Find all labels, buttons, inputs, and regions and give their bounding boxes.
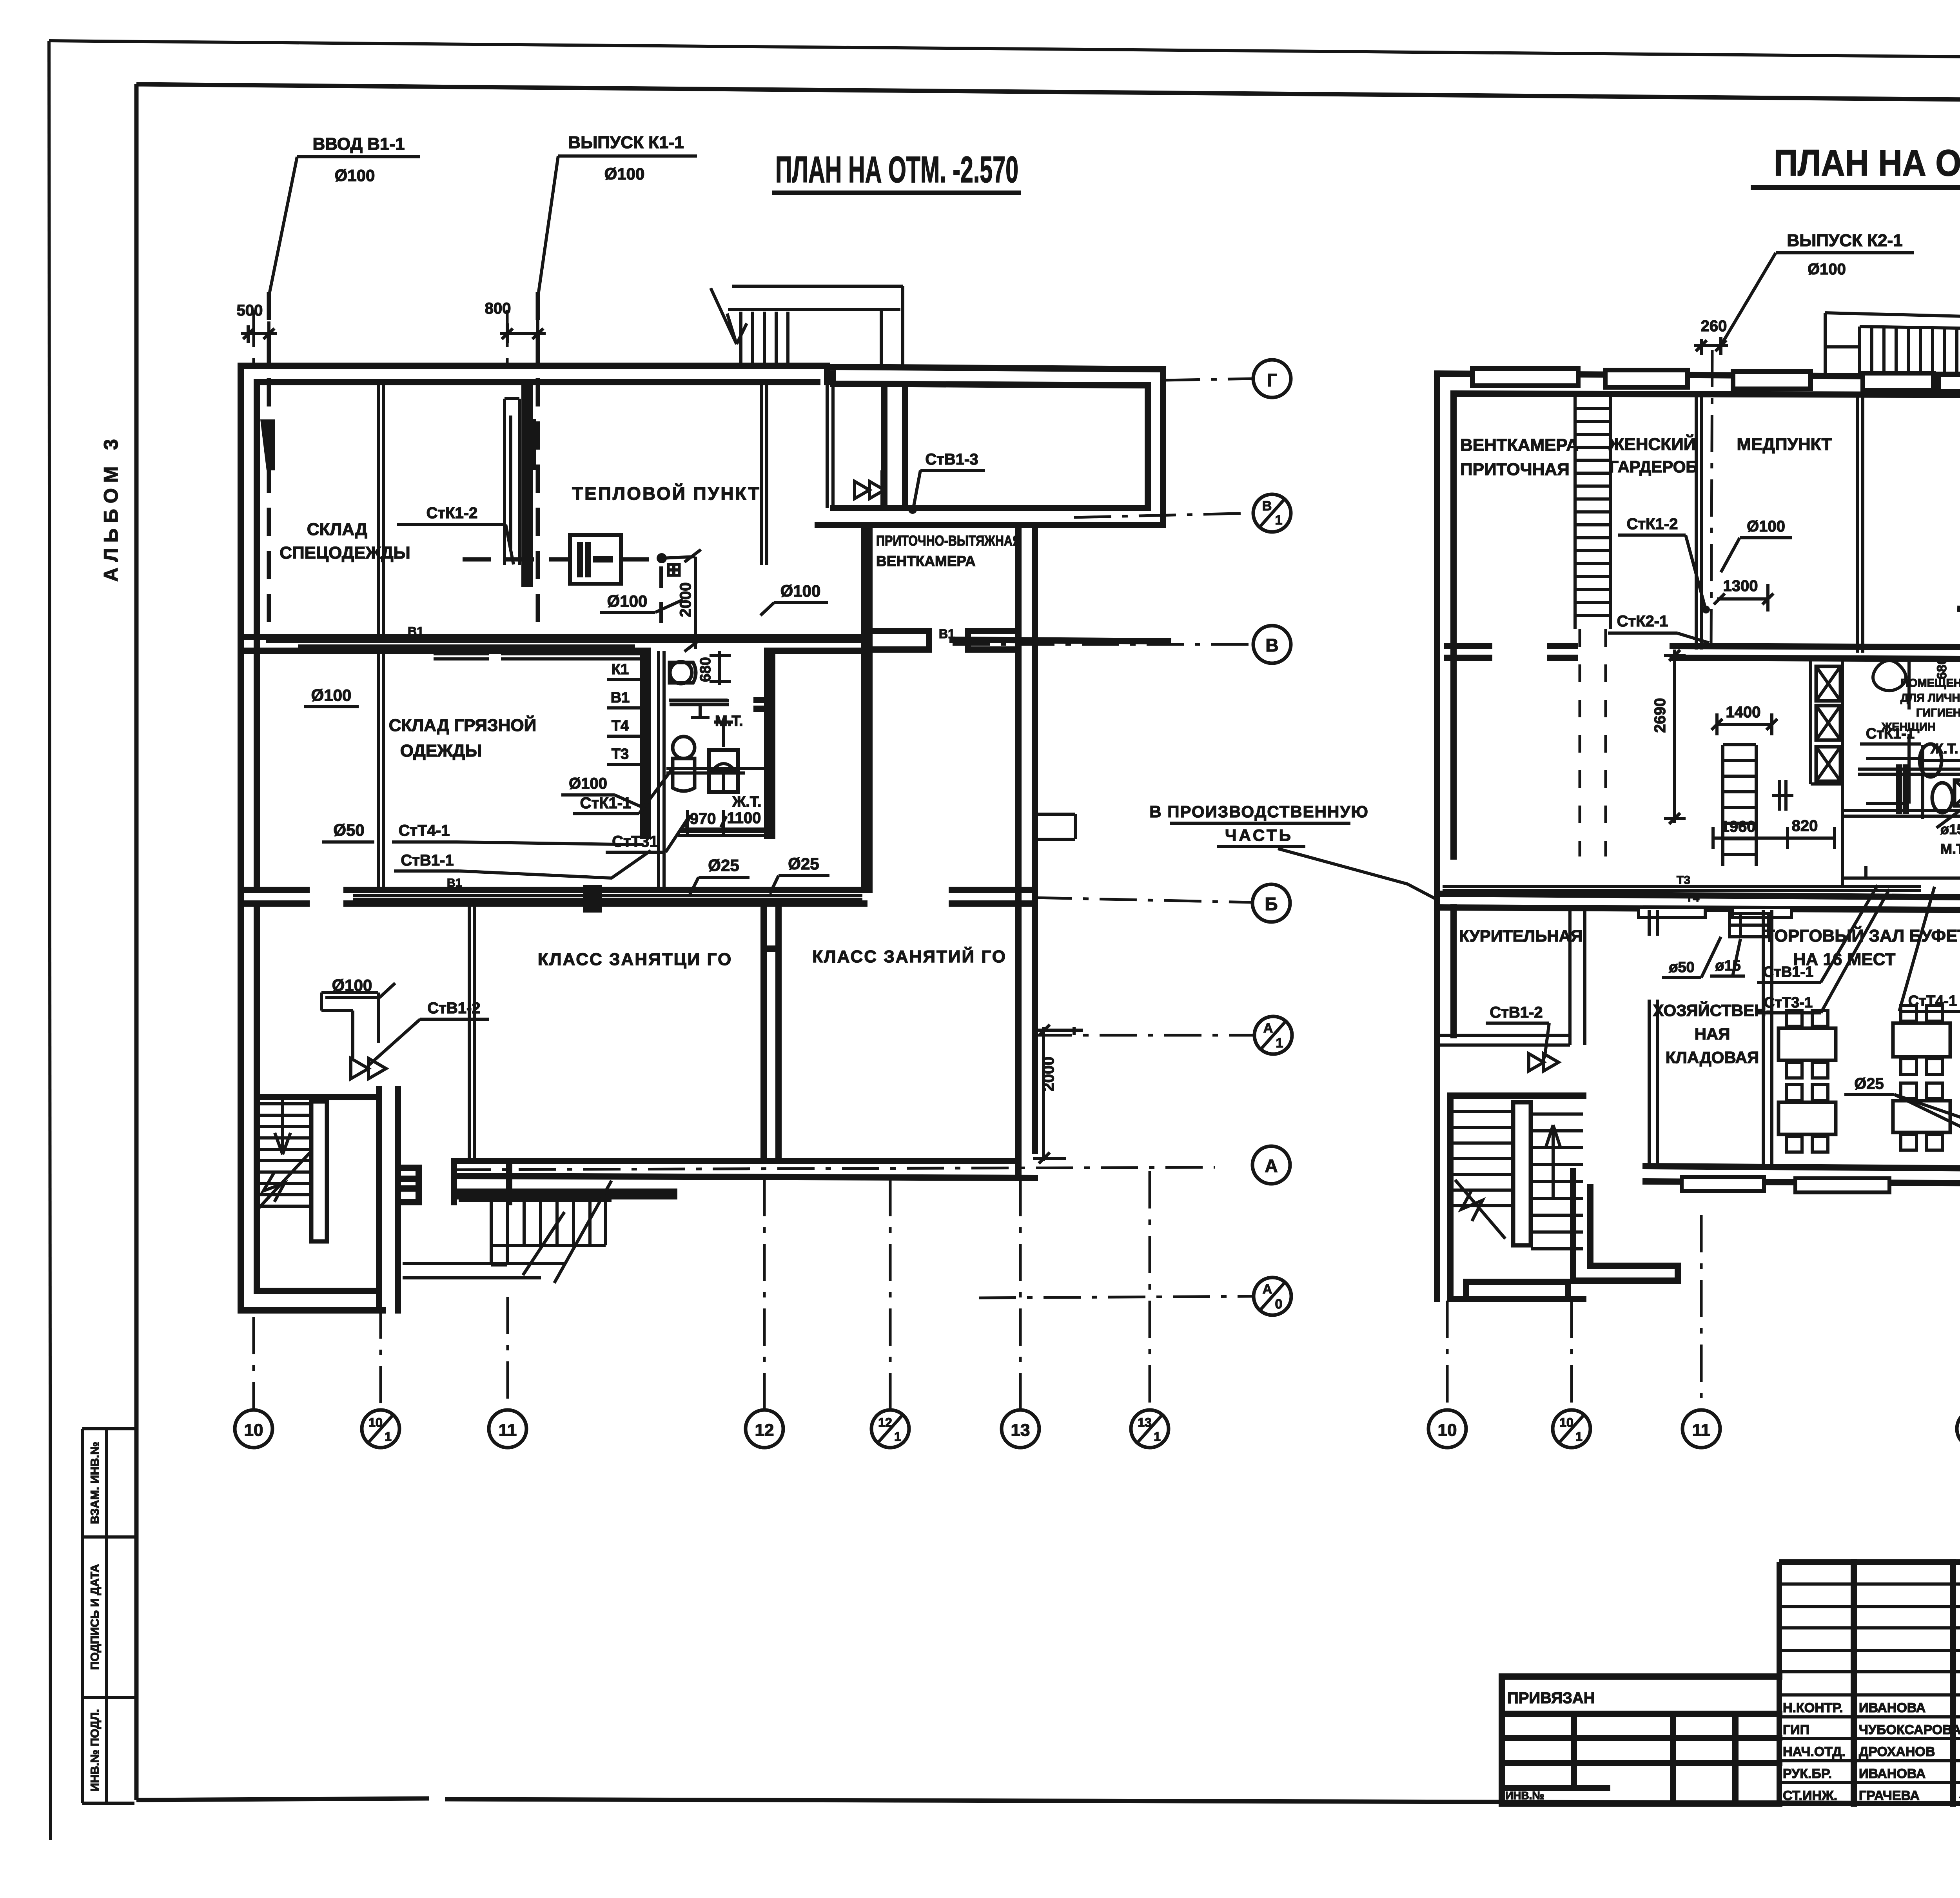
valve StV1-2 (351, 1058, 386, 1079)
K2 riser dash (1711, 350, 1712, 649)
svg-text:970: 970 (690, 810, 716, 827)
hoz kladovaya walls (1649, 910, 1772, 1166)
column circle 10/1 (362, 1410, 399, 1448)
svg-text:Ж.Т.: Ж.Т. (732, 794, 761, 810)
svg-text:СтВ1-2: СтВ1-2 (427, 1000, 480, 1017)
svg-text:Т3: Т3 (1677, 874, 1690, 887)
svg-text:Ø100: Ø100 (607, 592, 648, 610)
riser arrow black left (260, 419, 275, 470)
corridor left wall (827, 385, 833, 508)
south rooms top walls under V (434, 654, 641, 659)
column circle 13 (1002, 1410, 1039, 1448)
A bottom wall band (454, 1161, 1035, 1178)
V level stubs in pritochno (869, 631, 1018, 650)
svg-text:ГРАЧЕВА: ГРАЧЕВА (1859, 1788, 1920, 1803)
svg-text:Ø25: Ø25 (708, 856, 739, 875)
svg-text:1300: 1300 (1723, 577, 1758, 595)
left wall lower right plan (1437, 856, 1454, 1299)
svg-text:К1: К1 (612, 661, 629, 678)
svg-text:В1: В1 (611, 690, 630, 706)
partition 10/1 (378, 382, 383, 637)
svg-text:ЧАСТЬ: ЧАСТЬ (1225, 826, 1293, 844)
valve right plan (1529, 1054, 1559, 1071)
svg-text:НАЯ: НАЯ (1695, 1025, 1730, 1043)
heat unit box (570, 535, 621, 584)
svg-text:СПЕЦОДЕЖДЫ: СПЕЦОДЕЖДЫ (279, 543, 410, 563)
leader v proizvodstvennuyu (1278, 849, 1437, 900)
svg-text:В1: В1 (447, 876, 462, 889)
sanitary room bottom wall (678, 831, 768, 836)
svg-text:ДЛЯ ЛИЧНОЙ: ДЛЯ ЛИЧНОЙ (1900, 691, 1960, 704)
axis V1 circle (1074, 513, 1253, 517)
axis 10 extension above (252, 310, 255, 367)
svg-text:МЕДПУНКТ: МЕДПУНКТ (1737, 435, 1832, 454)
svg-text:НА 16 МЕСТ: НА 16 МЕСТ (1793, 950, 1896, 969)
pipe risers mid (1772, 780, 1793, 811)
svg-text:СтВ1-2: СтВ1-2 (1490, 1004, 1543, 1021)
riser dash with box symbol (659, 566, 663, 635)
svg-text:АЛЬБОМ 3: АЛЬБОМ 3 (100, 434, 122, 582)
top wall band G (241, 366, 827, 382)
tap fixture (1730, 913, 1769, 937)
svg-text:1: 1 (1154, 1430, 1161, 1444)
svg-text:ПРИТОЧНО-ВЫТЯЖНАЯ: ПРИТОЧНО-ВЫТЯЖНАЯ (876, 533, 1021, 549)
column axis lines (252, 1317, 255, 1410)
svg-text:260: 260 (1701, 318, 1727, 335)
lower external stair (459, 1200, 612, 1265)
svg-text:820: 820 (1792, 817, 1818, 835)
top wall band right plan (1437, 374, 1960, 395)
svg-text:Ø100: Ø100 (569, 775, 607, 792)
svg-text:Ø25: Ø25 (1854, 1075, 1884, 1092)
pritochno room left wall (864, 525, 869, 890)
axis G circle (1163, 379, 1253, 380)
svg-text:11: 11 (499, 1421, 517, 1440)
sanitary room left wall (643, 651, 648, 836)
svg-text:СтК1-1: СтК1-1 (1866, 726, 1915, 742)
pipes at sanitary (1842, 745, 1960, 819)
table 1 (1779, 1028, 1836, 1060)
medpunkt right wall (1858, 394, 1863, 653)
column axis lines right plan (1446, 1301, 1449, 1410)
duct wall StK1-2 (505, 399, 519, 565)
svg-text:1: 1 (1276, 1036, 1283, 1051)
door niche right (1035, 814, 1075, 839)
svg-text:СКЛАД: СКЛАД (307, 520, 367, 539)
svg-text:ВЕНТКАМЕРА: ВЕНТКАМЕРА (876, 553, 976, 569)
axis V circle (1253, 626, 1291, 663)
axis A circle (454, 1167, 1215, 1170)
column circle 12/1 (871, 1410, 909, 1448)
axis B circle (1035, 898, 1252, 902)
column circle 10/1 right (1553, 1410, 1590, 1448)
exit path right plan (1573, 1171, 1678, 1281)
svg-text:СТ.ИНЖ.: СТ.ИНЖ. (1783, 1788, 1837, 1803)
svg-text:СтТ31: СтТ31 (612, 833, 658, 850)
B wall band (241, 890, 1035, 904)
svg-text:Ø100: Ø100 (604, 165, 645, 183)
svg-text:А: А (1265, 1156, 1278, 1176)
T wall below sanitary (1842, 866, 1960, 878)
column circle 13/1 (1131, 1410, 1169, 1448)
svg-text:12: 12 (755, 1421, 774, 1440)
title block outline (1779, 1562, 1960, 1804)
svg-text:1: 1 (385, 1430, 392, 1444)
A0 block bottom dash (979, 1296, 1253, 1298)
stairwell top wall (257, 1094, 379, 1100)
svg-text:Ж.Т.: Ж.Т. (1930, 740, 1958, 757)
shower room walls (1866, 659, 1960, 831)
title underline (772, 191, 1021, 195)
svg-text:ХОЗЯЙСТВЕН-: ХОЗЯЙСТВЕН- (1653, 1001, 1772, 1020)
svg-text:ВЫПУСК К2-1: ВЫПУСК К2-1 (1787, 231, 1902, 250)
bottom wall band right plan (1646, 1166, 1960, 1185)
sanitary core right plan (1811, 659, 1842, 886)
svg-text:КУРИТЕЛЬНАЯ: КУРИТЕЛЬНАЯ (1459, 927, 1583, 945)
table 2 (1779, 1102, 1836, 1134)
svg-text:1: 1 (1275, 513, 1283, 528)
svg-text:ГАРДЕРОБ: ГАРДЕРОБ (1609, 457, 1697, 476)
svg-text:Н.КОНТР.: Н.КОНТР. (1783, 1700, 1843, 1715)
svg-text:В ПРОИЗВОДСТВЕННУЮ: В ПРОИЗВОДСТВЕННУЮ (1149, 802, 1369, 821)
mid V wall band right plan (1673, 646, 1960, 659)
svg-text:СтК1-2: СтК1-2 (426, 504, 478, 522)
svg-text:СтК1-2: СтК1-2 (1627, 515, 1678, 533)
table 3 (1893, 1023, 1950, 1057)
window sill blocks (1472, 368, 1578, 386)
svg-text:ПРИТОЧНАЯ: ПРИТОЧНАЯ (1460, 460, 1570, 479)
stairwell bottom walls (241, 905, 383, 1310)
partition 10/1 lower (378, 651, 383, 890)
svg-text:Ø100: Ø100 (1747, 518, 1785, 535)
sanitary partition (670, 701, 729, 705)
svg-text:10: 10 (1438, 1421, 1457, 1440)
svg-text:Т4: Т4 (1686, 891, 1699, 904)
toilet fixture (670, 662, 692, 684)
B axis pipe lines (353, 896, 862, 899)
sanitary room right wall (757, 651, 772, 836)
svg-text:Б: Б (1265, 894, 1278, 914)
svg-text:ТОРГОВЫЙ ЗАЛ БУФЕТА: ТОРГОВЫЙ ЗАЛ БУФЕТА (1764, 925, 1960, 945)
partition garderob/medpunkt (1696, 394, 1701, 650)
svg-text:680: 680 (1935, 657, 1949, 680)
outer border left line (49, 41, 51, 1840)
A wall end portal (454, 1163, 674, 1202)
title underline right (1751, 185, 1960, 190)
svg-text:ГИГИЕНЫ: ГИГИЕНЫ (1916, 707, 1960, 719)
svg-text:ВВОД В1-1: ВВОД В1-1 (312, 134, 405, 154)
svg-text:ИНВ.№: ИНВ.№ (1505, 1789, 1544, 1802)
svg-text:НАЧ.ОТД.: НАЧ.ОТД. (1783, 1744, 1846, 1759)
svg-text:М.Т.: М.Т. (1940, 841, 1960, 857)
top-right room walls (818, 367, 1163, 525)
svg-text:СтК2-1: СтК2-1 (1617, 613, 1668, 630)
V axis dash to circle (953, 643, 1253, 646)
svg-text:ИВАНОВА: ИВАНОВА (1859, 1766, 1926, 1781)
svg-text:СтК1-1: СтК1-1 (580, 795, 632, 812)
stair spine (311, 1101, 327, 1241)
column circle 10 right (1428, 1410, 1466, 1448)
corridor wall upper-right room (884, 385, 905, 508)
stairwell right plan (1450, 1096, 1583, 1299)
svg-text:ТЕПЛОВОЙ ПУНКТ: ТЕПЛОВОЙ ПУНКТ (572, 483, 761, 504)
stairwell enclosure bottom (1450, 1282, 1583, 1299)
svg-text:Ø25: Ø25 (788, 855, 819, 873)
svg-text:680: 680 (697, 657, 714, 682)
signature grid rows (1779, 1584, 1960, 1782)
window sills bottom (1682, 1177, 1764, 1191)
column circle 11 (489, 1410, 526, 1448)
svg-text:А: А (1263, 1282, 1272, 1297)
svg-text:ЖЕНСКИЙ: ЖЕНСКИЙ (1608, 434, 1696, 454)
walkway lines (403, 1263, 564, 1278)
svg-text:Ø100: Ø100 (780, 582, 821, 600)
svg-text:11: 11 (1692, 1421, 1711, 1440)
svg-text:КЛАСС ЗАНЯТИЙ ГО: КЛАСС ЗАНЯТИЙ ГО (812, 946, 1007, 966)
V wall band (241, 637, 866, 651)
sills below B wall (1639, 907, 1705, 918)
upper external stair (728, 286, 903, 366)
outer border top line (49, 41, 1960, 62)
small pipe risers at B wall (586, 888, 599, 909)
svg-text:М.Т.: М.Т. (715, 713, 743, 729)
signature grid verticals (1854, 1562, 1960, 1804)
svg-text:500: 500 (237, 302, 263, 319)
svg-text:ЧУБОКСАРОВА: ЧУБОКСАРОВА (1859, 1722, 1960, 1737)
svg-text:Ø100: Ø100 (311, 686, 352, 704)
V1 pipe line (269, 637, 866, 643)
lower fixtures (673, 737, 695, 758)
svg-text:ПРИВЯЗАН: ПРИВЯЗАН (1507, 1689, 1595, 1707)
V wall left stubs (1447, 646, 1575, 658)
stairwell right wall (379, 1089, 419, 1310)
right wall x2598 (1018, 525, 1035, 1178)
svg-text:1400: 1400 (1726, 704, 1761, 721)
svg-text:ø50: ø50 (1669, 959, 1694, 976)
svg-text:КЛАСС ЗАНЯТЦИ ГО: КЛАСС ЗАНЯТЦИ ГО (538, 950, 732, 969)
axis A1 circle (1035, 1034, 1253, 1037)
top external stair right plan (1825, 313, 1960, 374)
left outer wall right plan (1437, 374, 1454, 856)
svg-text:0: 0 (1275, 1297, 1283, 1312)
B wall band right plan (1437, 894, 1960, 910)
svg-text:Ø100: Ø100 (335, 166, 375, 185)
svg-text:КЛАДОВАЯ: КЛАДОВАЯ (1666, 1048, 1759, 1067)
svg-text:1100: 1100 (727, 809, 761, 827)
wall K1 riser column (524, 382, 530, 584)
svg-text:1960: 1960 (1721, 818, 1756, 835)
svg-text:ИНВ.№ ПОДЛ.: ИНВ.№ ПОДЛ. (89, 1709, 102, 1791)
svg-text:В: В (1262, 499, 1272, 514)
svg-text:ПОДПИСЬ И ДАТА: ПОДПИСЬ И ДАТА (89, 1564, 102, 1670)
kuritelnaya walls (1437, 910, 1585, 1045)
svg-text:ВЫПУСК К1-1: ВЫПУСК К1-1 (568, 133, 684, 152)
svg-text:А: А (1263, 1021, 1273, 1036)
svg-text:ИВАНОВА: ИВАНОВА (1859, 1700, 1926, 1715)
riser V1-1 dashed pipe (267, 292, 271, 639)
svg-text:ВЕНТКАМЕРА: ВЕНТКАМЕРА (1460, 435, 1579, 455)
svg-text:13: 13 (1011, 1421, 1030, 1440)
table 4 (1893, 1101, 1950, 1132)
svg-text:СтТ4-1: СтТ4-1 (399, 822, 450, 839)
svg-text:10: 10 (368, 1415, 383, 1430)
svg-text:СКЛАД ГРЯЗНОЙ: СКЛАД ГРЯЗНОЙ (389, 715, 537, 735)
svg-text:1: 1 (894, 1430, 901, 1444)
riser K1-1 dashed pipe (536, 292, 540, 639)
valve StV1-3 left plan (855, 470, 884, 510)
svg-text:12: 12 (878, 1415, 892, 1430)
wc fixtures right plan (1920, 744, 1942, 777)
svg-text:Г: Г (1267, 370, 1277, 390)
stair treads (259, 1104, 310, 1206)
svg-text:ВЗАМ. ИНВ.№: ВЗАМ. ИНВ.№ (89, 1442, 102, 1524)
ladder shaft (1575, 396, 1610, 629)
svg-text:Т3: Т3 (612, 746, 629, 762)
column circle 12 right (1957, 1410, 1960, 1448)
svg-text:10: 10 (1559, 1415, 1573, 1430)
side stamp column (82, 1429, 134, 1803)
svg-text:ГИП: ГИП (1783, 1722, 1809, 1737)
svg-text:СтВ1-3: СтВ1-3 (925, 451, 978, 468)
stair arrow (259, 1100, 310, 1208)
svg-text:В: В (1265, 635, 1278, 655)
K1 pipe from box (463, 557, 659, 562)
svg-text:13: 13 (1138, 1415, 1152, 1430)
privyazan box (1502, 1677, 1779, 1804)
column circle 11 right (1682, 1410, 1720, 1448)
riser pipe bundle (659, 651, 664, 890)
V wall inner pipes (298, 642, 864, 646)
T3 T4 pipes above B wall (1443, 887, 1921, 891)
svg-text:ПЛАН НА ОТМ. 0.000: ПЛАН НА ОТМ. 0.000 (1774, 142, 1960, 184)
svg-text:Ø50: Ø50 (333, 821, 364, 839)
svg-text:СтВ1-1: СтВ1-1 (401, 852, 454, 869)
svg-text:Ø100: Ø100 (1808, 261, 1846, 278)
MT sink (669, 700, 733, 747)
column circle 10 (235, 1410, 272, 1448)
stair cut slashes (523, 1181, 612, 1283)
lower-left niche walls (321, 993, 378, 1058)
svg-text:Т4: Т4 (612, 718, 629, 734)
svg-text:2690: 2690 (1651, 698, 1669, 733)
column circle 12 (746, 1410, 783, 1448)
svg-text:ПЛАН НА ОТМ. -2.570: ПЛАН НА ОТМ. -2.570 (775, 149, 1018, 191)
svg-text:ДРОХАНОВ: ДРОХАНОВ (1859, 1744, 1935, 1759)
svg-text:1: 1 (1575, 1430, 1583, 1444)
interior stair small (1723, 745, 1756, 866)
svg-text:10: 10 (244, 1421, 263, 1440)
svg-text:ОДЕЖДЫ: ОДЕЖДЫ (400, 741, 482, 760)
svg-text:ПОМЕЩЕНИЕ: ПОМЕЩЕНИЕ (1900, 677, 1960, 690)
left wall band (241, 366, 257, 905)
teplovoy punkt right wall (762, 385, 767, 565)
svg-text:РУК.БР.: РУК.БР. (1783, 1766, 1832, 1781)
axis A0 circle (1254, 1277, 1291, 1315)
svg-text:В1: В1 (408, 624, 424, 639)
riser arrow black K1 (523, 419, 536, 470)
class room 1 walls (469, 905, 474, 1161)
